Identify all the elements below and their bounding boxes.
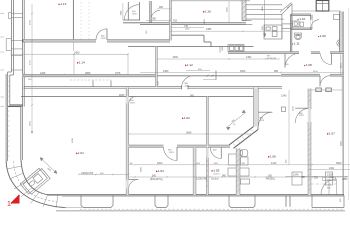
shaft chimney top right: [316, 1, 329, 12]
svg-text:780: 780: [301, 176, 306, 179]
svg-text:(900(1970)): (900(1970)): [150, 178, 163, 181]
wall x207 hall right: [207, 97, 209, 196]
corridor step walls below 1.16: [171, 35, 211, 46]
room label 1.07: [327, 132, 335, 136]
jamb stubs top of wall x309: [316, 88, 332, 92]
door opening wall 1.10: [310, 20, 312, 28]
partition line room 1.07 top: [311, 89, 344, 91]
svg-text:900: 900: [152, 174, 157, 177]
entry recess 1: [81, 196, 113, 208]
svg-text:▶1.14: ▶1.14: [77, 60, 85, 64]
svg-text:▶1.11: ▶1.11: [292, 42, 300, 46]
dim vertical x32: [31, 4, 33, 134]
svg-text:2160: 2160: [327, 174, 333, 177]
thick wall y40: [23, 39, 170, 42]
door arc E diag room: [259, 112, 273, 126]
svg-text:▶1.05: ▶1.05: [212, 169, 220, 173]
dim line y176.5 right short: [286, 175, 348, 177]
wall x238 divider 1.05 wc: [236, 148, 240, 195]
door opening wall x309: [308, 109, 312, 123]
dim line y27.6: [171, 27, 204, 29]
tiny dimension texts: [28, 6, 348, 190]
svg-text:3040: 3040: [186, 131, 192, 134]
svg-text:780: 780: [152, 18, 157, 21]
dashed beam over corridor: [70, 79, 111, 81]
svg-text:(90): (90): [197, 163, 201, 165]
staircase break diagonal: [282, 4, 292, 15]
dim vertical x123 door: [122, 3, 124, 20]
dim line y164.8: [129, 164, 350, 166]
fixtures room 1.06 bottom: [292, 172, 333, 185]
north arrow marker red triangle: [11, 195, 20, 204]
svg-text:▶1.68: ▶1.68: [304, 63, 312, 67]
room label 1.11: [292, 42, 300, 46]
room label 1.04: [156, 169, 164, 173]
wc box under stairs: [264, 25, 282, 39]
wall infill tints: [21, 0, 311, 195]
wall x126 hall left: [126, 87, 128, 195]
room label 1.10: [298, 17, 306, 21]
diagonal walls hall corner: [229, 127, 258, 149]
wall x194 divider 1.04 1.05: [193, 147, 196, 195]
dim line y72.4: [140, 70, 344, 73]
entry recess 5 right: [312, 195, 344, 207]
curved corner radial window ticks: [7, 166, 58, 208]
dim line y20.3: [146, 20, 171, 22]
bottom facade outer edge line: [56, 210, 345, 212]
staircase direction line with arrow: [263, 0, 266, 37]
door arc J x126 wall: [129, 96, 137, 104]
wall jog room 1.01 top-left: [8, 105, 23, 160]
svg-text:90 90 (90): 90 90 (90): [267, 58, 276, 60]
svg-text:(745): (745): [326, 180, 331, 182]
door arc B below wall y53: [321, 54, 332, 65]
door arc room 1.10: [311, 20, 319, 28]
entry recess 2: [155, 196, 168, 208]
svg-text:960: 960: [190, 94, 195, 97]
room 1.10 sink counter: [293, 21, 304, 27]
bottom facade plinth line: [62, 196, 344, 198]
rotated tiny texts: [29, 6, 342, 202]
right margin dim vertical: [342, 8, 348, 200]
wall 1.13 right: [72, 0, 74, 40]
dim line y74.4 room 1.14: [23, 74, 128, 76]
svg-text:960: 960: [222, 175, 227, 178]
door arc room 1.14: [96, 29, 107, 40]
svg-text:4000: 4000: [157, 162, 163, 165]
wall x309 divider 1.06 1.07: [308, 89, 311, 196]
corridor 1.12 walls: [128, 47, 254, 87]
corridor band walls y90 y97: [21, 87, 282, 97]
svg-text:4120: 4120: [271, 162, 277, 165]
dim line y169.5 right: [308, 169, 350, 171]
svg-text:1362: 1362: [246, 56, 252, 59]
svg-text:▶1.07: ▶1.07: [327, 132, 335, 136]
svg-text:200: 200: [268, 174, 273, 177]
door opening wall x126 upper: [126, 97, 129, 104]
toilet wc center: [240, 150, 248, 157]
svg-text:580: 580: [274, 70, 279, 73]
dim line y59 corridor: [157, 58, 280, 60]
door opening wall x207: [206, 148, 208, 158]
entry recess 3 wide: [229, 196, 255, 208]
svg-text:200: 200: [314, 177, 319, 180]
svg-text:1575: 1575: [115, 72, 121, 75]
room label 1.12: [185, 63, 193, 67]
bottom facade main wall: [48, 194, 344, 196]
door arc D: [320, 76, 331, 87]
door arc corridor right: [151, 10, 160, 19]
svg-text:900: 900: [159, 6, 164, 9]
thin line x289: [288, 90, 290, 165]
door arc bottom right: [321, 177, 337, 194]
room 1.11 toilet: [295, 33, 302, 40]
kitchenette block above wall: [228, 45, 244, 52]
diagonal annotation room 1.01: [40, 158, 57, 174]
svg-text:4830: 4830: [119, 94, 125, 97]
dim line y134 hall: [128, 133, 253, 135]
svg-text:▶1.06: ▶1.06: [268, 155, 276, 159]
svg-text:2425: 2425: [40, 72, 46, 75]
bottom facade sidewalk dashes: [80, 208, 344, 210]
corner vestibule rotated block: [20, 167, 50, 196]
room label 1.06: [268, 155, 276, 159]
wall hatch marks: [207, 89, 311, 196]
svg-text:1225(745): 1225(745): [196, 178, 207, 181]
svg-text:4900: 4900: [240, 70, 246, 73]
opening jambs in wall y90: [93, 81, 111, 87]
svg-text:▶1.01: ▶1.01: [76, 151, 84, 155]
svg-text:2350: 2350: [342, 178, 348, 181]
wall x254 vertical to diagonal: [254, 87, 259, 129]
room label 1.13: [59, 2, 67, 6]
svg-text:▶1.10: ▶1.10: [298, 17, 306, 21]
thick wall y146: [129, 145, 230, 147]
svg-text:(462(K)): (462(K)): [266, 178, 275, 181]
room label 1.05: [212, 169, 220, 176]
svg-text:▶1.02: ▶1.02: [182, 116, 190, 120]
dim vertical x229: [228, 1, 230, 23]
dim line y9 door top: [157, 8, 172, 10]
room label 1.14: [77, 60, 85, 64]
small square symbol hall: [282, 107, 286, 111]
door arc C corridor passage: [182, 76, 194, 88]
svg-text:▶1.09: ▶1.09: [318, 34, 326, 38]
wall y75 thick corridor south: [23, 74, 157, 76]
top border wall: [171, 0, 250, 2]
svg-text:2450: 2450: [163, 70, 169, 73]
door arc G: [210, 148, 221, 159]
svg-text:(2x2m): (2x2m): [213, 173, 220, 175]
curved corner outer wall: [6, 161, 66, 208]
room 1.10 walls: [291, 14, 311, 16]
wall room 1.16 bottom: [123, 20, 246, 24]
landing edges: [238, 4, 292, 39]
staircase treads: [246, 5, 284, 19]
room label 1.02: [182, 116, 190, 120]
door opening wall x126 lower: [126, 180, 129, 189]
svg-text:4485: 4485: [206, 28, 212, 31]
left margin ticks: [1, 14, 5, 107]
room label 1.68: [304, 63, 312, 67]
door arc corridor left: [124, 5, 139, 20]
diagonal wall hatch: [233, 130, 254, 147]
door opening in corridor wall: [182, 86, 188, 88]
room 1.14 side dim verticals: [11, 53, 130, 75]
dim tick cluster corridor x210: [203, 71, 216, 81]
svg-text:3600: 3600: [336, 162, 342, 165]
diagonal annotation hall corner: [227, 110, 246, 130]
svg-text:▶1.13: ▶1.13: [59, 2, 67, 6]
svg-text:(1x1m): (1x1m): [211, 178, 219, 181]
thick wall y53 right block: [228, 52, 344, 54]
door arc I x126 wall lower: [129, 180, 139, 190]
svg-text:4300: 4300: [173, 56, 179, 59]
svg-text:2868: 2868: [85, 72, 91, 75]
small fixture block 1.05 top: [241, 179, 250, 184]
curve base segment: [64, 207, 82, 209]
svg-text:2421: 2421: [329, 167, 335, 170]
insulated wall hatch left lower facade: [6, 75, 10, 159]
svg-text:▶1.16: ▶1.16: [203, 9, 211, 13]
svg-text:1900(1970): 1900(1970): [81, 172, 93, 175]
entry recess 4: [286, 196, 290, 207]
right outer wall double: [340, 12, 344, 54]
kitchenette nook edge: [219, 47, 221, 53]
staircase cut wall hatched: [242, 0, 246, 21]
room 1.09 fixtures: [334, 15, 344, 47]
svg-text:1240: 1240: [293, 174, 299, 177]
dim chain y177 bottom: [129, 176, 348, 178]
facade window mullions: [6, 13, 22, 71]
door arc A below wall y53: [285, 54, 299, 68]
svg-text:1: 1: [7, 201, 11, 208]
svg-text:915: 915: [173, 20, 178, 23]
curtain dashed lines room 1.13: [81, 2, 89, 40]
room label 1.09: [318, 34, 326, 38]
room label 1.01: [76, 151, 84, 155]
svg-text:1340: 1340: [281, 95, 287, 98]
room label 1.16: [203, 9, 211, 13]
svg-text:1450: 1450: [74, 52, 80, 55]
dim chain y174.4 room 1.01: [78, 174, 130, 176]
door pair walls top corridor: [128, 1, 151, 23]
door arc H: [164, 147, 178, 161]
dim line y31 room 1.16: [170, 30, 290, 32]
svg-text:▶1.12: ▶1.12: [185, 63, 193, 67]
shower room 1.05: [228, 154, 249, 176]
wall room 1.16 left: [170, 0, 172, 41]
svg-text:▶1.04: ▶1.04: [156, 169, 164, 173]
door arc F wall x309: [295, 108, 308, 123]
roofline diagonals top right: [280, 3, 341, 13]
dash-dot line room 1.06: [310, 183, 338, 185]
left facade outer wall: [6, 0, 24, 161]
curved corner inner wall: [21, 160, 48, 195]
curved corner middle dashed wall: [14, 161, 58, 202]
